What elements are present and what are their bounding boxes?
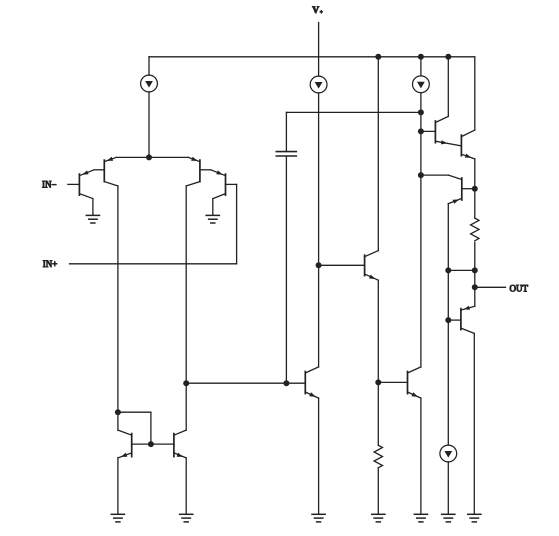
ground Q4 collector [206,215,219,223]
transistor Q9 (output Darlington second NPN) [461,130,474,159]
svg-text:IN+: IN+ [43,259,58,269]
wire Q12 collector down [473,333,475,514]
wire Q7a collector up [318,265,320,367]
wire Q10 collector horizontal [421,174,448,176]
wire V+ lead down [318,23,320,77]
wire tail left [116,156,149,158]
transistor Q3 (inner right PNP) [186,157,211,186]
wire Q10 emitter down [447,204,449,446]
wire Q11 emitter down [420,398,422,514]
wire IN+ line [70,263,237,265]
wire R2 to ground [377,468,379,515]
wire Q4 collector down [212,199,214,215]
current source I1 [141,75,158,92]
label V+ terminal [312,6,323,16]
ground Q1 collector [86,215,99,223]
wire I1 to tail node [148,92,150,157]
current source I3 [413,76,430,93]
node tail (input pair emitters) [146,154,152,160]
wire IN- to Q1 base [68,183,80,185]
wire Q3 collector down [185,186,187,430]
transistor Q2 (inner left PNP) [94,157,118,186]
node R1 bottom [472,267,478,273]
label IN- [42,180,57,190]
transistor Q7a (second stage NPN) [305,367,318,398]
wire capacitor top lead [285,112,287,151]
wire Q7 base [319,264,365,266]
label OUT [510,283,529,293]
wire Q5 emitter down [117,458,119,514]
svg-text:OUT: OUT [510,283,529,293]
wire I3 down left rail [420,93,422,367]
node bias lower left [445,267,451,273]
node Q12 base [445,317,451,323]
wire Q9 emitter down [474,159,476,218]
node capacitor line / rail [418,109,424,115]
node OUT [472,284,478,290]
wire R1 to OUT node [474,242,476,306]
node top rail / current source I3 [418,54,424,60]
node top rail / Q7 collector [375,54,381,60]
node A (I2 / Q7 base) [316,262,322,268]
node Q10 base [472,186,478,192]
transistor Q5 (mirror left NPN, faces left) [118,430,151,458]
wire top rail right drop [474,57,476,130]
ground Q5 emitter [111,514,124,522]
transistor Q6 (mirror right NPN) [151,430,186,458]
wire second stage base [186,382,305,384]
node Q8 base [418,128,424,134]
transistor Q12 (output PNP) [448,306,475,334]
ground Q12 collector [468,514,481,522]
wire capacitor bottom lead [285,156,287,383]
wire Q8 collector up [447,57,449,117]
transistor Q1 (outer left PNP) [79,170,94,199]
resistor R2 [374,445,382,468]
node Q10 collector [418,172,424,178]
transistor Q11 (NPN) [378,367,421,398]
wire I2 to node A [318,93,320,265]
transistor Q8 (output Darlington first NPN) [421,116,462,145]
wire bias tie [448,269,475,271]
current source I4 [440,445,457,462]
wire Q6 emitter down [185,458,187,514]
ground I4 [442,514,455,522]
wire Q2 collector down [117,186,119,430]
resistor R1 [471,218,479,241]
wire Q4 base right [226,183,237,185]
wire I4 to ground [447,462,449,514]
transistor Q4 (outer right PNP) [211,170,226,199]
transistor Q10 (bias PNP) [448,175,475,204]
wire capacitor top horizontal [286,111,421,113]
ground Q11 emitter [414,514,427,522]
wire rail to I1 [148,57,150,75]
wire Q1 collector down [92,199,94,215]
current source I2 [310,76,327,93]
wire mirror link horizontal [118,411,151,413]
wire Q7 emitter down [377,280,379,445]
svg-text:+: + [320,10,323,16]
node second stage base [183,380,189,386]
node Q11 base [375,379,381,385]
node mirror input [115,409,121,415]
ground R2 [372,514,385,522]
ground Q7a emitter [312,514,325,522]
wire OUT [475,286,506,288]
node top rail / Q9 collector [445,54,451,60]
wire tail right [149,156,188,158]
wire mirror link down [150,412,152,444]
wire Q4 base down to IN+ [236,184,238,263]
capacitor C1 [276,152,296,156]
label IN+ [43,259,58,269]
transistor Q7 (driver NPN) [365,251,379,281]
wire V+ rail (top horizontal) [149,56,475,58]
wire Q7a emitter down [318,398,320,514]
wire Q7 collector rail [377,57,379,251]
wire rail to I3 [420,57,422,76]
svg-text:V: V [312,6,319,16]
ground Q6 emitter [180,514,193,522]
node capacitor bottom [283,380,289,386]
node mirror bases [148,441,154,447]
svg-text:IN−: IN− [42,180,57,190]
